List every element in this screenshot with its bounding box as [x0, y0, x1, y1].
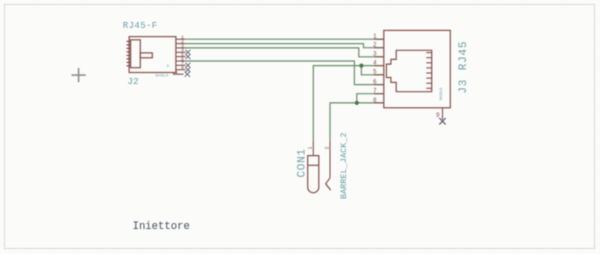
svg-text:8: 8: [181, 65, 184, 71]
svg-text:J2: J2: [127, 76, 139, 87]
J2 jack contact teeth: [127, 41, 131, 66]
barrel jack CON1 center pin tube: [308, 156, 319, 193]
svg-text:7: 7: [373, 88, 377, 95]
svg-text:8: 8: [373, 97, 377, 104]
svg-text:Iniettore: Iniettore: [133, 221, 190, 233]
svg-text:2: 2: [324, 146, 330, 149]
J3 jack outline: [386, 50, 431, 91]
svg-text:1: 1: [308, 146, 314, 149]
svg-text:1: 1: [373, 33, 377, 40]
J2 no-connect X pin 5: [185, 54, 190, 59]
barrel jack CON1 pin1 stub: [312, 141, 314, 156]
J3 shield pin 9 stub: [442, 108, 444, 120]
svg-text:J3: J3: [458, 79, 470, 94]
wire net V+: barrel jack pin1 up to J3 pin4: [313, 66, 384, 141]
svg-text:3: 3: [373, 51, 377, 58]
J3 no-connect X pin 9: [439, 118, 445, 124]
J2 no-connect X pin 7: [185, 63, 190, 68]
barrel jack CON1 sleeve pin2 stub: [329, 141, 331, 178]
J3 jack contact teeth: [426, 53, 431, 89]
wire net GND: barrel jack sleeve up to J3 pin8: [330, 103, 384, 141]
svg-text:9: 9: [167, 65, 169, 69]
J2 pin stubs 1-8: [176, 39, 186, 69]
svg-text:SHIELD: SHIELD: [440, 88, 444, 101]
wire net6: J2 pin6 to J3 pin6: [185, 61, 384, 85]
origin cross marker: [72, 68, 86, 82]
svg-text:9: 9: [175, 72, 178, 76]
barrel jack tube inner line: [308, 164, 319, 166]
junction dot pins 4-5 net: [359, 64, 363, 68]
barrel jack sleeve contact chevron: [326, 178, 331, 191]
wire branch to J3 pin7: [357, 94, 384, 103]
wire net1: J2 pin1 to J3 pin1: [185, 38, 384, 40]
svg-text:5: 5: [373, 69, 377, 76]
wire branch to J3 pin5: [361, 66, 383, 75]
svg-text:CON1: CON1: [296, 148, 308, 177]
J3 pin stubs 1-8: [374, 39, 384, 103]
svg-text:RJ45: RJ45: [458, 41, 470, 71]
J2 jack contact block: [131, 40, 141, 68]
connector J2 body: [127, 37, 176, 73]
J2 no-connect X pin 8: [185, 67, 190, 72]
svg-text:4: 4: [373, 60, 377, 67]
J2 jack latch tab: [140, 53, 152, 58]
svg-text:BARREL_JACK_2: BARREL_JACK_2: [339, 132, 349, 199]
J3 pin numbers 1-8: [373, 33, 377, 104]
svg-text:2: 2: [373, 42, 377, 49]
J2 no-connect X pin 4: [185, 50, 191, 77]
J2 shield pin stub: [174, 73, 184, 75]
J2 pin numbers 1-8: [181, 35, 184, 72]
wire net3: J2 pin3 to J3 pin3: [185, 48, 384, 57]
svg-text:6: 6: [373, 79, 377, 86]
connector J3 body: [384, 30, 451, 107]
svg-text:SHIELD: SHIELD: [155, 74, 168, 78]
wire net2: J2 pin2 to J3 pin2: [185, 44, 384, 48]
J2 no-connect X shield pin: [185, 72, 190, 77]
junction dot pins 7-8 net: [355, 101, 359, 105]
svg-text:RJ45-F: RJ45-F: [123, 21, 158, 31]
